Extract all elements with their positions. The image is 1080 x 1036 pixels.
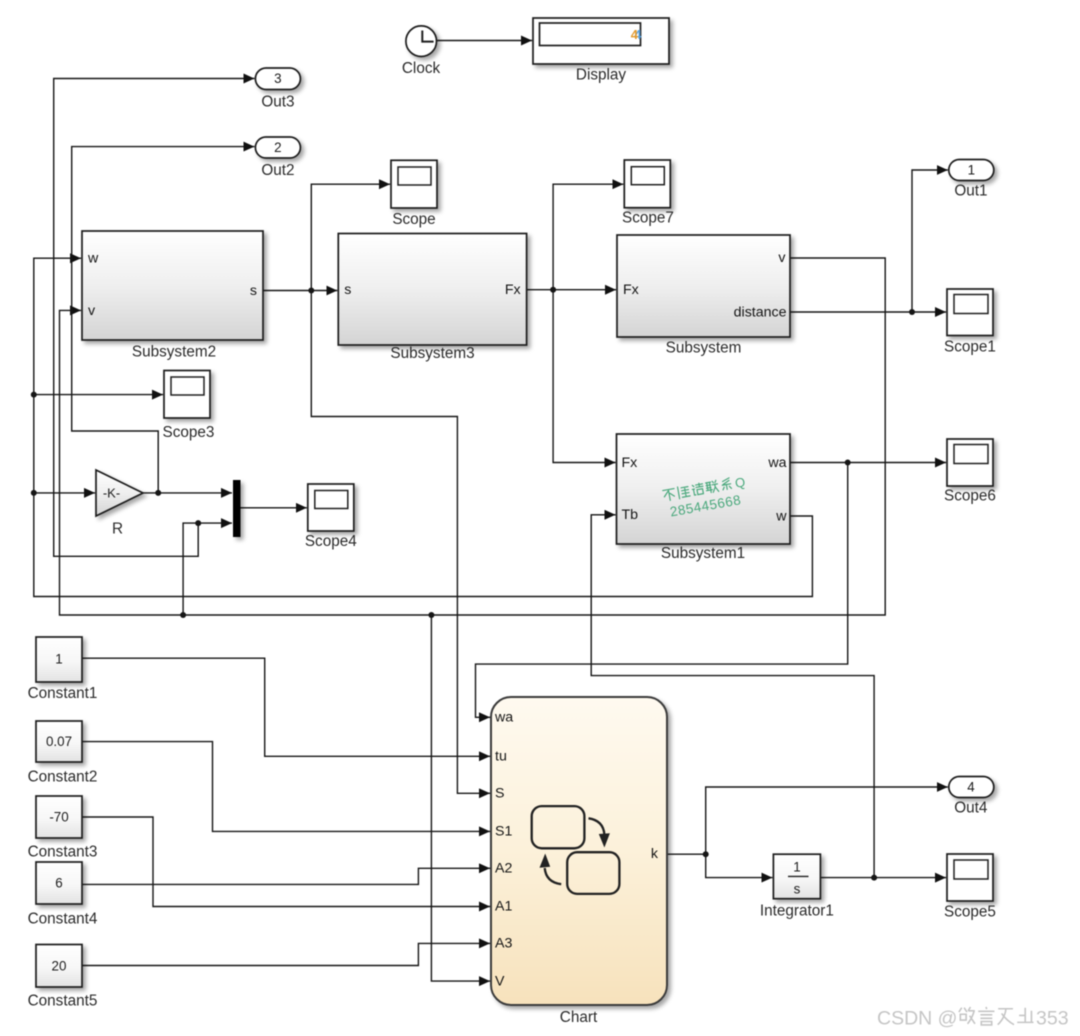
svg-text:A2: A2 <box>495 861 512 877</box>
svg-text:S1: S1 <box>495 824 512 840</box>
svg-text:Display: Display <box>576 67 627 84</box>
svg-text:Subsystem: Subsystem <box>666 340 742 357</box>
svg-text:A3: A3 <box>495 936 512 952</box>
svg-text:-70: -70 <box>49 810 68 825</box>
svg-text:Out3: Out3 <box>261 94 294 111</box>
svg-text:w: w <box>87 251 99 267</box>
svg-text:Scope: Scope <box>392 211 435 228</box>
svg-text:s: s <box>344 282 351 298</box>
svg-text:Fx: Fx <box>505 282 521 298</box>
svg-text:s: s <box>250 283 257 299</box>
svg-text:R: R <box>112 521 123 538</box>
svg-text:v: v <box>778 250 786 266</box>
svg-text:Scope4: Scope4 <box>305 533 357 550</box>
svg-text:Scope7: Scope7 <box>622 210 674 227</box>
svg-text:V: V <box>495 973 505 989</box>
svg-text:Chart: Chart <box>560 1009 598 1026</box>
svg-text:Constant1: Constant1 <box>28 685 98 702</box>
svg-text:Constant5: Constant5 <box>28 993 98 1010</box>
svg-text:Out2: Out2 <box>261 162 294 179</box>
svg-text:20: 20 <box>52 959 67 974</box>
svg-text:Out1: Out1 <box>954 183 987 200</box>
svg-text:1: 1 <box>793 860 800 875</box>
svg-text:Constant4: Constant4 <box>28 911 98 928</box>
svg-text:Out4: Out4 <box>954 800 988 817</box>
svg-text:distance: distance <box>734 305 787 321</box>
svg-text:Integrator1: Integrator1 <box>760 903 834 920</box>
svg-text:0.07: 0.07 <box>46 734 72 749</box>
svg-text:Scope1: Scope1 <box>944 339 996 356</box>
svg-text:A1: A1 <box>495 899 512 915</box>
svg-text:1: 1 <box>968 162 975 177</box>
svg-text:v: v <box>88 303 96 319</box>
svg-text:wa: wa <box>767 455 786 471</box>
svg-text:Fx: Fx <box>623 282 639 298</box>
svg-text:CSDN @: CSDN @ <box>877 1008 957 1030</box>
svg-text:Tb: Tb <box>622 507 639 523</box>
svg-text:1: 1 <box>55 652 62 667</box>
svg-text:Scope5: Scope5 <box>944 904 996 921</box>
svg-text:4: 4 <box>631 27 639 42</box>
svg-text:Constant2: Constant2 <box>28 769 98 786</box>
svg-text:Fx: Fx <box>622 455 638 471</box>
svg-text:4: 4 <box>967 779 975 794</box>
svg-text:Scope3: Scope3 <box>163 424 215 441</box>
svg-text:k: k <box>651 846 659 862</box>
svg-text:Clock: Clock <box>402 60 441 77</box>
svg-text:Subsystem2: Subsystem2 <box>132 344 216 361</box>
svg-text:Subsystem3: Subsystem3 <box>390 345 474 362</box>
svg-text:Subsystem1: Subsystem1 <box>661 545 745 562</box>
svg-text:wa: wa <box>494 710 513 726</box>
svg-text:tu: tu <box>495 749 507 765</box>
svg-text:s: s <box>794 882 801 897</box>
svg-text:6: 6 <box>55 876 62 891</box>
svg-text:Constant3: Constant3 <box>28 844 98 861</box>
svg-text:353: 353 <box>1036 1008 1069 1030</box>
svg-text:w: w <box>775 508 787 524</box>
svg-text:3: 3 <box>274 71 281 86</box>
svg-text:S: S <box>495 786 504 802</box>
svg-text:Scope6: Scope6 <box>944 488 996 505</box>
svg-text:-K-: -K- <box>103 485 120 500</box>
svg-text:2: 2 <box>274 140 281 155</box>
